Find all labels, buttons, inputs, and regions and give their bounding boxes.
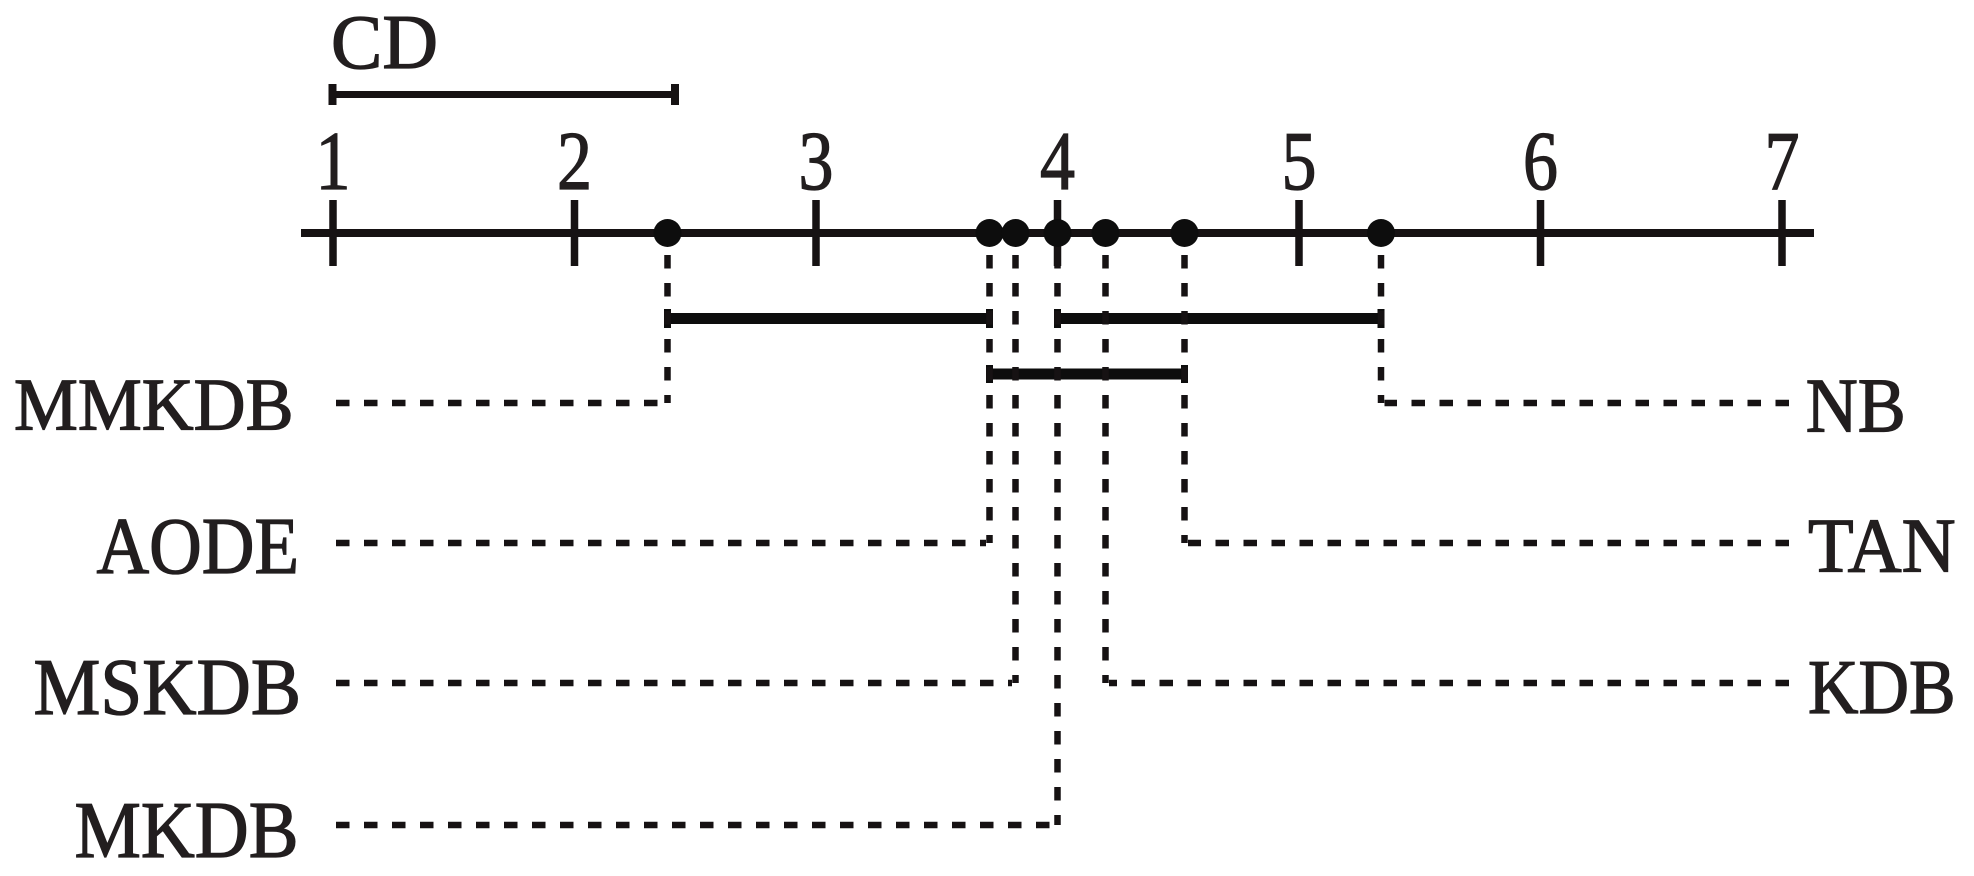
svg-text:MSKDB: MSKDB <box>34 643 302 732</box>
dot MMKDB rank 2.38 <box>654 219 682 247</box>
svg-text:MKDB: MKDB <box>75 785 299 875</box>
dot MSKDB rank 3.83 <box>1002 219 1030 247</box>
connector MKDB vertical dashed drop line <box>1054 255 1061 825</box>
svg-text:AODE: AODE <box>97 503 300 591</box>
connector NB vertical dashed drop line <box>1378 255 1385 403</box>
connector TAN vertical dashed drop line <box>1181 255 1188 543</box>
svg-text:7: 7 <box>1765 115 1800 208</box>
connector NB horizontal dashed lead line <box>1385 400 1790 407</box>
axis tick 2 <box>571 200 579 266</box>
axis tick 6 <box>1537 200 1545 266</box>
axis line <box>301 229 1814 237</box>
axis tick 7 <box>1778 200 1786 266</box>
CD interval bar <box>329 84 679 105</box>
svg-text:MMKDB: MMKDB <box>14 365 294 447</box>
svg-text:1: 1 <box>316 115 351 208</box>
group line MKDB-NB <box>1055 309 1384 328</box>
svg-text:CD: CD <box>331 0 438 85</box>
axis tick 3 <box>812 200 820 266</box>
connector AODE vertical dashed drop line <box>986 255 993 543</box>
connector MSKDB horizontal dashed lead line <box>336 680 1012 687</box>
group line AODE-TAN <box>987 365 1187 383</box>
dot AODE rank 3.72 <box>976 219 1004 247</box>
svg-text:4: 4 <box>1040 115 1075 208</box>
connector MSKDB vertical dashed drop line <box>1012 255 1019 683</box>
svg-text:NB: NB <box>1806 363 1906 449</box>
group line MMKDB-AODE <box>665 309 993 328</box>
svg-text:3: 3 <box>799 115 834 208</box>
svg-text:KDB: KDB <box>1808 644 1956 730</box>
axis tick 1 <box>329 200 337 266</box>
dot TAN rank 4.53 <box>1171 219 1199 247</box>
svg-text:2: 2 <box>557 115 592 208</box>
svg-text:6: 6 <box>1523 115 1558 208</box>
connector KDB vertical dashed drop line <box>1102 255 1109 683</box>
axis tick 4 <box>1054 200 1062 266</box>
connector KDB horizontal dashed lead line <box>1109 680 1789 687</box>
connector MKDB horizontal dashed lead line <box>336 822 1054 829</box>
connector MMKDB horizontal dashed lead line <box>336 400 664 407</box>
connector MMKDB vertical dashed drop line <box>664 255 671 403</box>
dot MKDB rank 4.00 <box>1044 219 1072 247</box>
dot KDB rank 4.20 <box>1092 219 1120 247</box>
connector TAN horizontal dashed lead line <box>1188 540 1789 547</box>
svg-text:5: 5 <box>1282 115 1317 208</box>
svg-text:TAN: TAN <box>1808 503 1956 589</box>
dot NB rank 5.34 <box>1367 219 1395 247</box>
connector AODE horizontal dashed lead line <box>336 540 986 547</box>
axis tick 5 <box>1295 200 1303 266</box>
